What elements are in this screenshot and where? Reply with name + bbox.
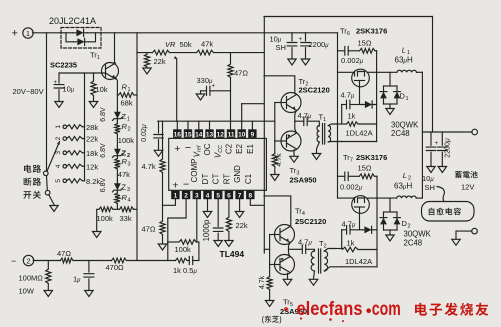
pin 13 box [205, 129, 213, 138]
svg-text:+: + [299, 36, 303, 43]
ground below breaker switch [50, 206, 58, 212]
svg-text:E2: E2 [235, 144, 244, 154]
Tr6 drain exit [367, 71, 376, 73]
outcap1 stub [430, 132, 432, 145]
svg-text:100k: 100k [118, 136, 135, 145]
T1 primary bottom [317, 142, 320, 153]
wire y121 down left of IC [162, 121, 164, 159]
rail drop to channels [337, 33, 339, 198]
pin2 wire [168, 199, 186, 242]
svg-text:2SK3176: 2SK3176 [356, 27, 387, 36]
bus mid3 [187, 260, 189, 262]
cap to T1 [307, 121, 319, 126]
feedback top right [196, 241, 199, 243]
svg-text:+: + [174, 143, 180, 155]
wire 330u ground lead [201, 91, 207, 94]
wire 47ohm to ground [162, 235, 164, 244]
wire divider left corner [97, 209, 99, 231]
resistor 28k (tap 1) [67, 125, 83, 129]
diode D2 right [396, 212, 398, 230]
pin3 wire [196, 199, 198, 242]
pin5 wire [217, 199, 219, 226]
svg-text:28k: 28k [86, 123, 98, 132]
svg-text:CT: CT [212, 174, 221, 185]
svg-text:+: + [54, 80, 58, 86]
capacitor 2200u (rail) [301, 43, 310, 46]
resistor R3 47k [115, 159, 120, 170]
C1 collector line [264, 76, 295, 94]
diode D2 left [383, 212, 385, 230]
svg-text:−: − [183, 179, 189, 191]
branch ch2 right [373, 229, 377, 231]
line above IC y121 [158, 120, 275, 122]
transistor Tr1 SC2235 [102, 63, 119, 80]
drop to pin 9 [251, 121, 253, 129]
gate line ch2 [338, 197, 354, 199]
wire 47ohm stub [230, 53, 232, 64]
svg-text:33k: 33k [120, 214, 132, 223]
vertical line x137 (rail to bottom bus) [136, 33, 138, 261]
dashed box around diode pair 20JL2C41A [61, 28, 101, 49]
resistor 470ohm [112, 258, 127, 263]
capacitor 10u (base filter) [54, 85, 64, 88]
svg-text:20JL2C41A: 20JL2C41A [49, 16, 96, 26]
svg-text:11: 11 [228, 131, 235, 138]
svg-text:9: 9 [251, 131, 255, 138]
label battery (xudianchi) [455, 171, 478, 178]
VR wiper arrowhead [174, 56, 177, 59]
wire to 47ohm [162, 205, 164, 221]
Tr5 bottom lead [287, 273, 289, 279]
resistor 1k (bus) [176, 258, 188, 263]
diode D1 left [383, 86, 385, 104]
D1 stub top [389, 72, 391, 86]
label duanlu (breaker) [24, 178, 41, 186]
capacitor 4.7u (ch1) [304, 117, 307, 126]
capacitor 4.7u (ch2) [302, 245, 305, 254]
diode D upper of 20JL2C41A [73, 32, 88, 34]
resistor 1k (ch1 gate) [347, 122, 359, 127]
switch contact 1 [63, 125, 67, 129]
resistor 22k (to ground) [144, 54, 149, 67]
Tr4 emitter to junction [289, 242, 291, 249]
svg-text:6.8V: 6.8V [100, 143, 107, 158]
ground pin4 [203, 212, 212, 218]
resistor 4.7k (left of IC) [160, 159, 165, 173]
pin 12 box [216, 129, 224, 138]
22k to ground [228, 232, 230, 241]
resistor 22k (tap 2) [67, 137, 83, 141]
wire Tr1 emitter [116, 78, 118, 96]
transistor Tr2 2SC2120 [281, 93, 301, 113]
resistor 12k (tap 4) [67, 164, 83, 168]
ground 2200u rail [301, 59, 310, 65]
wire switch resistor bus [84, 73, 86, 181]
MOSFET Tr7 2SK3176 [352, 196, 370, 214]
Tr6 source lead down [359, 81, 361, 105]
10uSH stub [291, 33, 293, 41]
D1 box top [384, 85, 398, 87]
branch ch1 left [342, 104, 347, 106]
zener Z2 6.8V [116, 146, 118, 159]
snubber1 right vert [376, 51, 378, 142]
Tr3 top to junction [295, 121, 297, 133]
switch contact 3 [63, 151, 67, 155]
svg-text:4.7k: 4.7k [142, 162, 156, 171]
wire Z1-R2 [116, 122, 118, 124]
gate box ch2 bottom [342, 266, 377, 268]
wire 10k to ground [93, 96, 95, 102]
cap to T2 [306, 249, 315, 251]
pin 9 box [248, 129, 256, 138]
2200u down [305, 48, 307, 59]
pin8 wire [250, 199, 264, 205]
svg-text:1k: 1k [347, 239, 355, 248]
wire + rail down to switch [46, 33, 48, 171]
capacitor snubber1 [345, 47, 348, 56]
svg-text:SH: SH [425, 183, 435, 192]
resistor 33k (divider) [120, 207, 134, 212]
ground Tr5 [283, 279, 292, 285]
resistor 22k (RT) [226, 217, 231, 232]
1000p to ground [217, 233, 219, 240]
capacitor 10u SH (rail) [287, 43, 297, 46]
4.7k ch2 to ground [269, 290, 271, 301]
ground 1u [85, 291, 94, 297]
svg-text:3: 3 [195, 193, 199, 200]
resistor 1k (ch2 gate) [342, 247, 358, 252]
Tr7 drain exit [367, 197, 377, 199]
svg-text:1DL42A: 1DL42A [345, 257, 372, 266]
bus mid2 [127, 260, 176, 262]
2200u stub [305, 33, 307, 41]
resistor 8.2k (tap 5) [67, 179, 83, 183]
Tr3 emitter arrow (PNP) [288, 134, 291, 137]
svg-text:6.8V: 6.8V [100, 107, 107, 122]
outcap2 stub [441, 132, 443, 145]
ground outcap2 [438, 167, 447, 173]
D2 box bottom [384, 229, 398, 231]
resistor 100k (divider) [99, 207, 113, 212]
wire 4.7k down [162, 173, 164, 206]
svg-text:18k: 18k [86, 149, 98, 158]
svg-text:1: 1 [127, 117, 130, 123]
wire 47k to box edge [214, 52, 264, 54]
svg-text:4: 4 [55, 164, 62, 168]
self-healing capacitor note box [422, 202, 475, 222]
ground below 10k [89, 102, 98, 108]
base line Tr4/Tr5 [269, 235, 271, 265]
gate line ch1 [338, 71, 354, 73]
svg-text:7: 7 [238, 193, 242, 200]
pin 14 box [195, 129, 203, 138]
D2 stub bottom [389, 230, 391, 235]
terminal battery + [472, 129, 478, 135]
resistor 47ohm (pin1) [160, 221, 165, 235]
inductor L2 63uH [397, 196, 417, 198]
svg-text:8.2k: 8.2k [86, 177, 100, 186]
gate box ch2 left [341, 230, 343, 249]
svg-text:100MΩ: 100MΩ [19, 274, 44, 283]
svg-text:com: com [372, 298, 401, 320]
transistor Tr5 2SA950 [275, 255, 295, 275]
Tr3 bottom lead [293, 150, 295, 156]
ground below 330u [196, 94, 205, 100]
svg-text:2SC2120: 2SC2120 [299, 86, 330, 95]
ground below 22k [143, 68, 151, 74]
base feed ch2 [264, 248, 269, 250]
capacitor 1000p [213, 228, 223, 231]
transistor Tr3 2SA950 [281, 131, 301, 151]
10uSH down [291, 48, 293, 59]
svg-text:1k: 1k [348, 112, 356, 121]
svg-text:12: 12 [217, 131, 225, 138]
ground below divider [93, 232, 102, 238]
gate box ch1 top-left [337, 123, 347, 125]
ground below 0.02u [154, 150, 163, 156]
switch contact 2 [63, 137, 67, 141]
svg-text:2: 2 [55, 136, 62, 140]
branch ch2 left [342, 229, 347, 231]
pin1 wire [163, 199, 176, 205]
wire R2-Z2 [116, 134, 118, 146]
wiper arrowhead [57, 142, 60, 145]
svg-text:SC2235: SC2235 [50, 61, 77, 70]
switch wiper pivot [44, 171, 49, 176]
svg-text:15Ω: 15Ω [358, 164, 372, 173]
svg-text:2: 2 [26, 257, 30, 266]
svg-text:1: 1 [128, 87, 131, 93]
svg-text:SH: SH [276, 43, 286, 52]
svg-text:47k: 47k [118, 170, 130, 179]
terminal 2 (input -) [23, 255, 33, 265]
svg-text:3: 3 [128, 162, 131, 168]
capacitor 2200u out1 [426, 147, 436, 150]
svg-text:16: 16 [174, 131, 182, 138]
svg-text:22k: 22k [86, 135, 98, 144]
wire chain top [116, 95, 118, 109]
svg-text:12V: 12V [461, 183, 474, 192]
wire 33k to x137 [134, 208, 138, 210]
diode (ch2 gate) [363, 229, 374, 231]
branch ch1 mid [350, 104, 363, 106]
bus end [193, 260, 199, 262]
breaker contact [45, 190, 50, 195]
wire chain bottom [116, 204, 118, 210]
IC TL494 body [169, 138, 267, 190]
transistor Tr4 2SC2120 [275, 225, 295, 245]
wire pivot to breaker [46, 176, 49, 191]
ground outcap1 [427, 167, 435, 173]
terminal 1 (input +) [23, 28, 33, 38]
inductor L1 63uH [397, 70, 417, 72]
capacitor snubber2 [345, 172, 348, 181]
Tr4 emitter arrow [286, 238, 289, 241]
snubber2 mid [348, 175, 359, 177]
module left border / C line [263, 17, 265, 254]
base line Tr2/Tr3 [274, 103, 276, 142]
wire lower branch left [66, 33, 74, 42]
ground below 47ohm [158, 244, 167, 250]
svg-text:2: 2 [128, 127, 131, 133]
drop to top pin at x=209.5 [209, 121, 211, 129]
resistor 100k (feedback) [179, 240, 196, 245]
resistor 47k (top row) [197, 50, 214, 55]
T2 primary bottom [314, 271, 315, 278]
svg-text:1DL42A: 1DL42A [346, 128, 373, 137]
Tr2 base lead [275, 102, 287, 104]
output vertical x422 [421, 72, 423, 198]
drop pin10 to E2 line [241, 104, 243, 130]
svg-text:3: 3 [55, 151, 62, 155]
label dianlu (circuit) [24, 165, 41, 173]
svg-text:470Ω: 470Ω [106, 263, 125, 272]
svg-text:C2: C2 [225, 143, 234, 154]
svg-text:Z: Z [122, 183, 127, 192]
svg-text:47k: 47k [201, 40, 213, 49]
svg-text:2SA950: 2SA950 [290, 176, 317, 185]
snubber1 right [375, 50, 377, 52]
switch wiper arm [47, 142, 60, 172]
potentiometer VR 50k [153, 50, 170, 55]
svg-text:13: 13 [206, 131, 214, 138]
wire Tr1 collector to rail [114, 33, 116, 64]
feedback top wire [168, 241, 179, 243]
svg-text:2SC2120: 2SC2120 [295, 217, 326, 226]
capacitor 1u [84, 274, 94, 277]
capacitor 330u [207, 86, 210, 95]
T1 secondary top [328, 124, 336, 126]
E2 line to box edge [242, 103, 264, 105]
D1 stub bottom [389, 104, 391, 108]
svg-text:1: 1 [26, 29, 30, 38]
svg-text:63μH: 63μH [394, 182, 412, 191]
capacitor 0.5u [189, 257, 192, 265]
svg-text:3: 3 [127, 187, 130, 193]
Tr5 top to junction [289, 249, 291, 257]
D2 stub top [389, 198, 391, 212]
resistor R1 68k (horizontal) [119, 93, 135, 98]
resistor 4.7k (Tr2/3 base) [272, 154, 277, 167]
snubber2 left [338, 175, 345, 177]
bleeder down [47, 284, 49, 291]
svg-text:2: 2 [184, 193, 188, 200]
Tr5 emitter arrow (PNP) [281, 258, 284, 261]
capacitor 2200u out2 [438, 147, 448, 150]
wire lower branch right [89, 33, 96, 42]
svg-text:100k: 100k [175, 245, 192, 254]
gate box ch1 bottom [342, 141, 377, 143]
wire 10k stub [93, 73, 95, 81]
output - line [456, 230, 472, 232]
svg-text:COMP: COMP [190, 159, 199, 183]
bleeder stub [47, 261, 49, 270]
Tr4 base lead [270, 234, 280, 236]
svg-text:−: − [11, 256, 16, 266]
bus mid1 [73, 260, 112, 262]
svg-text:VR: VR [165, 40, 176, 49]
diode (ch1 gate) [363, 104, 375, 106]
base line down ch2 [269, 265, 271, 277]
ground Tr3 [290, 156, 298, 162]
ground 100Mohm [44, 291, 53, 297]
pin4 wire [207, 199, 209, 211]
branch ch2 mid [350, 229, 363, 231]
label kaiguan (switch) [23, 191, 40, 199]
svg-text:+: + [212, 84, 216, 90]
pin 11 box [227, 129, 235, 138]
svg-text:5: 5 [55, 179, 62, 183]
svg-text:2200μ: 2200μ [445, 138, 452, 158]
svg-text:L: L [402, 46, 406, 55]
1u stub [88, 261, 90, 273]
resistor 18k (tap 3) [67, 151, 83, 155]
L1 to output vert [417, 71, 423, 73]
svg-text:100k: 100k [97, 214, 114, 223]
4.7k to ground [274, 167, 276, 175]
transformer T2 [311, 251, 314, 271]
svg-text:0.02μ: 0.02μ [141, 124, 148, 142]
ground below 10u [55, 102, 63, 108]
gate box ch1 top-right [358, 123, 377, 125]
zener Z3 6.8V [116, 181, 118, 194]
svg-text:30QWK: 30QWK [404, 230, 432, 239]
svg-text:6: 6 [227, 193, 231, 200]
diode D1 right [396, 86, 398, 104]
wire 10u to ground [58, 90, 60, 101]
svg-text:4: 4 [206, 193, 210, 200]
svg-text:2C48: 2C48 [404, 239, 423, 248]
Tr2 emitter arrow [292, 106, 295, 109]
svg-text:50k: 50k [180, 40, 192, 49]
svg-text:47Ω: 47Ω [57, 249, 71, 258]
svg-text:63μH: 63μH [395, 56, 413, 65]
wire R1 to x137 line [134, 94, 137, 96]
resistor 10k [91, 81, 96, 96]
ground output - [452, 239, 460, 245]
resistor R2 100k [115, 124, 120, 135]
Tr7 source lead down [359, 207, 361, 230]
gate box ch2 top-right [358, 249, 377, 251]
svg-text:+: + [12, 28, 18, 40]
outcap2 down [441, 152, 443, 166]
gate box ch1 left [341, 105, 343, 125]
branch ch1 right [375, 104, 377, 106]
gate box ch2 top-left [335, 248, 342, 250]
svg-text:4: 4 [128, 198, 131, 204]
svg-text:14: 14 [195, 131, 203, 138]
svg-text:68k: 68k [121, 99, 133, 108]
wire 22k stub [146, 53, 148, 54]
bus from terminal [33, 260, 60, 262]
drop to top pin at x=198.8 [198, 121, 200, 129]
svg-text:10k: 10k [96, 85, 108, 94]
T2 secondary top [324, 249, 335, 252]
output + line [422, 131, 472, 133]
drop to top pin at x=188.0 [187, 121, 189, 129]
svg-text:RT: RT [222, 174, 231, 185]
label ziyudianrong [429, 208, 461, 216]
wire VR row left [137, 52, 153, 54]
svg-text:15: 15 [184, 131, 192, 138]
ground T1 primary [312, 154, 321, 160]
svg-text:8: 8 [248, 193, 252, 200]
pin 4 box [203, 191, 211, 200]
ground 4.7k ch1 [271, 175, 280, 181]
capacitor 4.7u (ch1 gate) [347, 100, 350, 109]
breaker blade [49, 195, 54, 205]
pin 15 box [184, 129, 192, 138]
